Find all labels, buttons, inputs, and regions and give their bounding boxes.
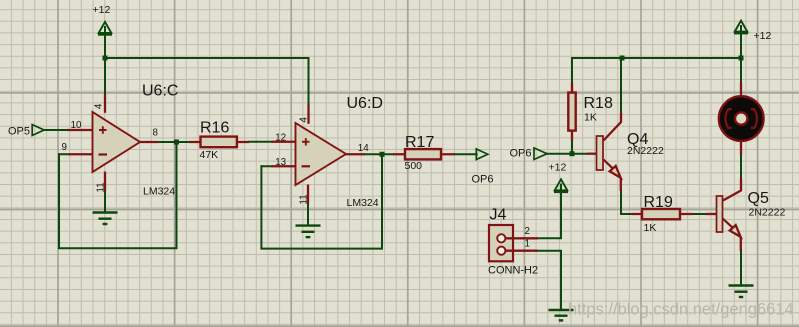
node junction at +12 rail — [103, 56, 108, 61]
svg-text:12: 12 — [275, 133, 286, 144]
svg-text:2: 2 — [525, 226, 530, 237]
pin 13 stub — [272, 165, 296, 167]
svg-text:+12: +12 — [549, 162, 567, 174]
svg-text:+12: +12 — [93, 4, 111, 16]
svg-text:R18: R18 — [584, 95, 613, 112]
power +12 top-right — [734, 21, 748, 34]
wire OP5 to pin10 — [44, 129, 68, 131]
resistor R16 — [189, 137, 249, 148]
svg-text:10: 10 — [71, 120, 82, 131]
resistor R18 — [568, 83, 575, 141]
node junction at U6:C output — [174, 140, 179, 145]
wire J4 pin1 to ground — [538, 251, 561, 310]
svg-text:R17: R17 — [405, 134, 434, 151]
pin 4 stub U6:C — [104, 94, 106, 113]
motor M1 — [719, 82, 764, 154]
svg-text:R19: R19 — [644, 194, 673, 211]
wire rail down to Q4 collector — [620, 58, 622, 113]
wire U6:C feedback loop — [59, 142, 177, 248]
wire R16 to U6:D pin12 — [249, 141, 272, 143]
transistor Q5 — [706, 178, 742, 251]
resistor R17 — [393, 149, 455, 159]
pin 11 stub U6:D — [307, 185, 309, 204]
pin 4 stub U6:D — [307, 105, 309, 124]
op-amp U6:D — [296, 123, 347, 185]
wire R18 bottom to base rail — [571, 141, 573, 154]
wire pin9 stub feed — [59, 153, 69, 155]
svg-text:1: 1 — [525, 239, 530, 250]
pin 8 stub — [139, 141, 159, 143]
wire motor bottom to Q5 collector — [740, 154, 742, 178]
wire R19 to Q5 base — [692, 213, 706, 215]
svg-text:4: 4 — [298, 117, 309, 123]
svg-text:8: 8 — [153, 128, 159, 139]
power +12 near J4 — [554, 179, 568, 192]
pin 10 stub — [67, 129, 93, 131]
ground below U6:C — [93, 213, 118, 225]
svg-text:13: 13 — [275, 157, 286, 168]
ground below U6:D — [296, 226, 321, 238]
terminal OP5 — [32, 125, 44, 136]
wire U6:D feedback loop — [261, 154, 382, 248]
wire U6:D pin13 feed — [261, 165, 271, 167]
pin 9 stub — [69, 153, 93, 155]
svg-text:OP5: OP5 — [8, 126, 30, 138]
svg-text:14: 14 — [358, 143, 369, 154]
svg-text:1K: 1K — [644, 222, 657, 234]
svg-text:U6:D: U6:D — [347, 95, 383, 112]
node junction Q4 collector rail — [620, 56, 625, 61]
resistor R19 — [632, 209, 692, 219]
svg-text:LM324: LM324 — [143, 185, 175, 197]
terminal OP6 input — [534, 148, 547, 160]
svg-text:2N2222: 2N2222 — [749, 206, 786, 218]
wire OP6 terminal to Q4 base — [547, 153, 588, 155]
svg-text:R16: R16 — [200, 120, 229, 137]
pin 14 stub — [345, 153, 365, 155]
terminal OP6 output — [476, 149, 488, 160]
wire R17 to OP6 output terminal — [455, 153, 477, 155]
wire U6:C pin11 to ground — [104, 190, 106, 212]
wire +12 stem to junction and U6:C pin4 — [104, 27, 106, 94]
wire J4 pin2 to +12 stem — [538, 185, 561, 239]
node junction +12 motor rail — [739, 56, 744, 61]
svg-text:4: 4 — [93, 103, 104, 109]
svg-text:OP6: OP6 — [472, 174, 494, 186]
svg-text:1K: 1K — [584, 112, 597, 124]
svg-text:11: 11 — [299, 194, 310, 204]
wire +12 top-right stem — [740, 26, 742, 58]
power +12 top-left — [98, 22, 112, 35]
wire R18 top to +12 rail — [571, 58, 573, 83]
wire Q5 emitter to ground — [740, 251, 742, 285]
svg-text:500: 500 — [405, 160, 423, 172]
op-amp U6:C — [93, 112, 141, 172]
ground below J4 — [549, 310, 574, 320]
svg-text:+12: +12 — [754, 30, 772, 42]
pin 11 stub U6:C — [104, 172, 106, 191]
svg-text:2N2222: 2N2222 — [627, 145, 664, 157]
svg-text:https://blog.csdn.net/geng6614: https://blog.csdn.net/geng6614 — [568, 301, 794, 319]
wire U6:D output to R17 — [364, 153, 393, 155]
node junction at U6:D output — [380, 152, 385, 157]
svg-text:47K: 47K — [200, 149, 219, 161]
svg-text:Q5: Q5 — [748, 190, 769, 207]
wire top rail to U6:D — [105, 58, 309, 105]
svg-text:J4: J4 — [490, 207, 507, 224]
svg-text:LM324: LM324 — [347, 197, 379, 209]
svg-text:CONN-H2: CONN-H2 — [488, 265, 538, 277]
wire U6:D pin11 to ground — [307, 203, 309, 225]
wire rail down to motor top — [740, 58, 742, 82]
transistor Q4 — [588, 113, 622, 192]
svg-text:9: 9 — [62, 142, 67, 153]
svg-text:11: 11 — [96, 182, 107, 192]
wire U6:C output to R16 — [158, 141, 189, 143]
ground below Q5 — [729, 286, 754, 298]
svg-text:OP6: OP6 — [510, 148, 532, 160]
wire right +12 rail — [572, 57, 741, 59]
node junction R18 bottom — [570, 151, 575, 156]
pin 12 stub — [272, 141, 296, 143]
connector J4 — [489, 225, 538, 261]
wire Q4 emitter to R19 — [621, 191, 633, 215]
svg-text:U6:C: U6:C — [142, 83, 178, 100]
